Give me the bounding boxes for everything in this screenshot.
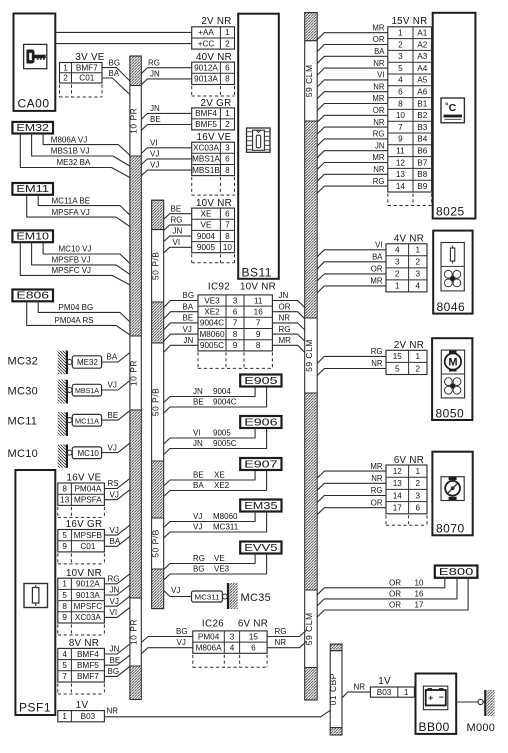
svg-text:NR: NR xyxy=(371,474,383,483)
svg-text:OR: OR xyxy=(371,265,383,274)
wire MR 8025 pin row 7 xyxy=(317,94,388,110)
svg-text:BG: BG xyxy=(193,565,205,574)
svg-text:MC311: MC311 xyxy=(195,593,220,602)
ground wall MC10 xyxy=(58,444,72,468)
connector 6V NR (8070) xyxy=(386,455,427,526)
svg-text:+AA: +AA xyxy=(198,28,214,37)
svg-text:VJ: VJ xyxy=(150,161,159,170)
wire PM04 BG xyxy=(38,301,130,322)
svg-text:MPSFA: MPSFA xyxy=(74,496,102,505)
svg-text:4: 4 xyxy=(398,76,403,85)
wire loom 10 PR xyxy=(129,56,142,700)
svg-text:8: 8 xyxy=(225,232,230,241)
svg-text:6: 6 xyxy=(225,64,230,73)
wire BA 8025 pin row 3 xyxy=(317,47,388,63)
svg-text:4: 4 xyxy=(62,650,67,659)
svg-text:BE: BE xyxy=(110,656,121,665)
connector 1V B03 (battery feed) xyxy=(370,676,414,697)
wire VI XC03A psf xyxy=(104,607,129,617)
svg-text:1: 1 xyxy=(62,580,67,589)
svg-text:B7: B7 xyxy=(417,158,427,167)
svg-text:XE2: XE2 xyxy=(214,481,230,490)
svg-text:17: 17 xyxy=(393,504,403,513)
svg-text:ME32 BA: ME32 BA xyxy=(57,158,91,167)
svg-text:8025: 8025 xyxy=(436,205,465,219)
svg-text:XC03A: XC03A xyxy=(75,613,101,622)
svg-text:CA00: CA00 xyxy=(18,97,50,111)
wire VJ M8060 xyxy=(164,512,255,528)
svg-text:BS11: BS11 xyxy=(242,266,272,280)
svg-text:E906: E906 xyxy=(244,416,278,428)
svg-text:10: 10 xyxy=(415,578,424,587)
svg-text:10: 10 xyxy=(223,243,233,252)
wire NR B03 to loom 01 CBP xyxy=(104,707,330,717)
svg-text:BMF4: BMF4 xyxy=(77,650,99,659)
wire +AA xyxy=(55,31,191,33)
svg-text:12: 12 xyxy=(396,158,406,167)
wire BE XE xyxy=(164,470,255,486)
wire BE BMF5 psf xyxy=(104,655,129,665)
svg-text:1: 1 xyxy=(404,688,409,697)
svg-text:B2: B2 xyxy=(417,111,427,120)
wire BE 9004C xyxy=(164,387,267,414)
svg-text:9012A: 9012A xyxy=(194,64,218,73)
svg-text:VJ: VJ xyxy=(110,526,119,535)
svg-text:PM04A RS: PM04A RS xyxy=(55,316,94,325)
svg-text:59 CLM: 59 CLM xyxy=(304,339,314,372)
svg-text:9005C: 9005C xyxy=(200,341,224,350)
svg-text:9012A: 9012A xyxy=(76,580,100,589)
svg-text:3: 3 xyxy=(416,491,421,500)
svg-text:10 PR: 10 PR xyxy=(129,360,139,386)
svg-text:1: 1 xyxy=(62,712,67,721)
svg-text:EVV5: EVV5 xyxy=(244,542,277,554)
svg-text:16: 16 xyxy=(415,590,424,599)
svg-text:9: 9 xyxy=(62,542,67,551)
wire BG PM04 xyxy=(141,627,193,643)
svg-text:2: 2 xyxy=(225,120,230,129)
svg-text:BG: BG xyxy=(109,58,121,67)
svg-text:2: 2 xyxy=(416,364,421,373)
svg-text:9005C: 9005C xyxy=(213,439,237,448)
svg-text:16V VE: 16V VE xyxy=(196,132,231,143)
dial icon in 8070 xyxy=(441,477,464,501)
relay icon in BS11 xyxy=(247,128,271,152)
svg-text:6: 6 xyxy=(251,644,256,653)
svg-text:VJ: VJ xyxy=(108,443,117,452)
svg-text:BG: BG xyxy=(108,667,120,676)
svg-text:C01: C01 xyxy=(80,542,95,551)
wire loom 59 CLM xyxy=(304,13,317,700)
connector 1V (PSF1) xyxy=(58,700,105,722)
wire OR 17 xyxy=(317,578,468,617)
svg-text:VI: VI xyxy=(193,429,201,438)
wire VJ MPSFA xyxy=(104,490,129,500)
svg-text:6: 6 xyxy=(233,308,238,317)
svg-text:1: 1 xyxy=(395,282,400,291)
svg-text:B6: B6 xyxy=(417,147,427,156)
svg-text:2: 2 xyxy=(395,270,400,279)
svg-text:NR: NR xyxy=(373,165,385,174)
svg-text:PM04 BG: PM04 BG xyxy=(59,303,94,312)
svg-text:PSF1: PSF1 xyxy=(19,701,51,715)
wire RG 9012A xyxy=(141,58,191,73)
earth tag MC11A xyxy=(72,414,101,426)
ground wall MC30 xyxy=(58,380,72,404)
svg-text:VJ: VJ xyxy=(183,325,192,334)
wire VI 9005 feed xyxy=(164,238,192,253)
svg-text:MC30: MC30 xyxy=(8,386,39,398)
svg-text:9: 9 xyxy=(233,341,238,350)
svg-text:8: 8 xyxy=(225,166,230,175)
svg-text:8: 8 xyxy=(233,330,238,339)
svg-text:7: 7 xyxy=(256,319,261,328)
wire BA C01 xyxy=(102,69,130,94)
wire M806A VJ xyxy=(43,134,130,156)
svg-text:5: 5 xyxy=(62,591,67,600)
svg-text:BG: BG xyxy=(183,291,195,300)
wire VI 9005 xyxy=(164,428,255,444)
svg-text:NR: NR xyxy=(371,359,383,368)
wire OR 8046 xyxy=(317,265,386,281)
wire RG VE xyxy=(164,554,255,570)
svg-text:3: 3 xyxy=(233,296,238,305)
svg-text:BA: BA xyxy=(107,353,118,362)
svg-text:15: 15 xyxy=(249,632,259,641)
svg-text:BA: BA xyxy=(109,69,120,78)
wire MPSFC VJ xyxy=(20,242,130,285)
svg-text:VJ: VJ xyxy=(150,150,159,159)
wire loom 50 P/B xyxy=(151,200,164,608)
svg-text:EM32: EM32 xyxy=(16,122,49,134)
wire BG BMF7 xyxy=(102,58,130,81)
svg-text:9: 9 xyxy=(256,330,261,339)
connector 4V NR (8046) xyxy=(386,233,427,292)
svg-text:RG: RG xyxy=(108,575,120,584)
wire BB00 to earth M000 xyxy=(456,701,478,703)
svg-text:VJ: VJ xyxy=(108,381,117,390)
svg-text:BMF7: BMF7 xyxy=(76,63,98,72)
svg-text:11: 11 xyxy=(254,296,263,305)
wire ME32 BA xyxy=(20,134,130,178)
svg-text:MBS1B VJ: MBS1B VJ xyxy=(51,147,90,156)
connector 16V VE (PSF1) xyxy=(58,473,105,518)
svg-text:10V NR: 10V NR xyxy=(240,282,276,293)
svg-text:BE: BE xyxy=(193,398,204,407)
svg-text:B9: B9 xyxy=(417,182,427,191)
wire VJ MPSFC xyxy=(104,596,129,606)
svg-text:MR: MR xyxy=(370,462,382,471)
svg-text:1: 1 xyxy=(416,467,421,476)
wire MBS1B VJ xyxy=(32,134,130,167)
svg-text:9004C: 9004C xyxy=(213,398,237,407)
svg-text:MC311: MC311 xyxy=(213,523,239,532)
svg-text:B03: B03 xyxy=(377,688,392,697)
wire VJ MC311 xyxy=(164,512,267,539)
svg-text:VJ: VJ xyxy=(110,490,119,499)
svg-text:10 PR: 10 PR xyxy=(129,619,139,645)
svg-text:5: 5 xyxy=(395,364,400,373)
svg-text:EM35: EM35 xyxy=(244,500,277,512)
wire VJ MPSFB xyxy=(104,525,129,535)
fuse icon in PSF1 xyxy=(24,584,48,608)
svg-text:RG: RG xyxy=(373,130,385,139)
wire MPSFB VJ xyxy=(32,242,130,274)
wire JN 9004 xyxy=(164,387,255,403)
wire NR 8025 pin row 9 xyxy=(317,118,388,134)
svg-text:MC11A BE: MC11A BE xyxy=(52,196,91,205)
wire BG BMF7 psf xyxy=(104,666,129,676)
wire VI 8025 pin row 5 xyxy=(317,71,388,87)
wire BA 8046 xyxy=(317,253,386,269)
wire JN 9013A xyxy=(141,70,191,85)
svg-text:E905: E905 xyxy=(244,375,278,387)
svg-text:BE: BE xyxy=(183,314,194,323)
wire RG 8050 xyxy=(317,347,386,363)
svg-text:50 P/B: 50 P/B xyxy=(151,388,161,417)
connector 10V NR (PSF1) xyxy=(58,568,105,635)
svg-text:BE: BE xyxy=(193,471,204,480)
svg-text:MR: MR xyxy=(370,277,382,286)
wire NR 8050 xyxy=(317,359,386,375)
svg-text:9004C: 9004C xyxy=(200,319,224,328)
svg-text:2V GR: 2V GR xyxy=(201,98,232,109)
svg-text:5: 5 xyxy=(62,531,67,540)
fuse box PSF1 xyxy=(15,470,55,715)
svg-text:BB00: BB00 xyxy=(419,720,450,734)
svg-text:RS: RS xyxy=(108,479,119,488)
svg-text:9005: 9005 xyxy=(213,429,231,438)
svg-text:RG: RG xyxy=(279,325,291,334)
module BS11 xyxy=(238,14,279,280)
svg-text:7: 7 xyxy=(225,221,230,230)
wire JN BMF4 psf xyxy=(104,644,129,654)
svg-text:15: 15 xyxy=(393,352,403,361)
battery icon in BB00 xyxy=(423,686,447,710)
svg-text:E907: E907 xyxy=(244,458,278,470)
svg-text:8: 8 xyxy=(225,75,230,84)
svg-text:MPSFC VJ: MPSFC VJ xyxy=(52,266,92,275)
svg-text:VJ: VJ xyxy=(193,512,202,521)
wire VJ MBS1A xyxy=(141,150,191,165)
wire JN 9005C xyxy=(164,428,267,455)
svg-text:9005: 9005 xyxy=(197,243,216,252)
wire NR B03 batt xyxy=(342,683,370,698)
wire RG 8070 xyxy=(317,486,386,502)
earth tag MBS1A xyxy=(72,384,101,396)
svg-text:9013A: 9013A xyxy=(76,591,100,600)
svg-text:JN: JN xyxy=(279,291,289,300)
wire BE 9004C ic92 xyxy=(164,314,198,330)
svg-text:13: 13 xyxy=(393,479,403,488)
wire BA XE2 xyxy=(164,470,267,497)
svg-text:2: 2 xyxy=(63,74,68,83)
svg-text:JN: JN xyxy=(110,586,120,595)
svg-text:BE: BE xyxy=(171,204,182,213)
svg-text:JN: JN xyxy=(150,104,160,113)
wire JN ic92 out xyxy=(272,291,304,307)
svg-text:NR: NR xyxy=(275,638,287,647)
svg-text:VE: VE xyxy=(201,221,212,230)
connector IC92 10V NR xyxy=(198,295,272,369)
svg-text:9013A: 9013A xyxy=(194,75,218,84)
motor+fan icon in 8050 xyxy=(441,350,464,398)
svg-text:OR: OR xyxy=(373,35,385,44)
connector 10V NR xyxy=(192,198,235,263)
wire JN 8025 pin row 11 xyxy=(317,141,388,157)
svg-text:M8060: M8060 xyxy=(199,330,224,339)
wire OR 8025 pin row 8 xyxy=(317,106,388,122)
svg-text:8: 8 xyxy=(62,602,67,611)
svg-text:A2: A2 xyxy=(417,40,427,49)
wire MR 8025 pin row 12 xyxy=(317,153,388,169)
wire VI 8046 xyxy=(317,241,386,257)
wire RG 9012A psf xyxy=(104,574,129,584)
svg-text:PM04: PM04 xyxy=(198,632,220,641)
svg-text:˚C: ˚C xyxy=(445,102,456,114)
wire RG ic92 out xyxy=(272,325,304,341)
earth strap box EM11 xyxy=(12,183,53,195)
svg-text:2: 2 xyxy=(416,258,421,267)
svg-text:MR: MR xyxy=(372,94,384,103)
svg-text:MC35: MC35 xyxy=(241,592,272,604)
svg-text:6V NR: 6V NR xyxy=(238,619,268,630)
svg-text:OR: OR xyxy=(389,590,401,599)
svg-text:BA: BA xyxy=(374,47,385,56)
svg-text:M: M xyxy=(448,357,457,369)
battery BB00 xyxy=(416,674,457,735)
svg-text:8: 8 xyxy=(398,99,403,108)
svg-text:8: 8 xyxy=(256,341,261,350)
earth strap box EM10 xyxy=(12,230,53,242)
key icon in CA00 xyxy=(24,44,47,68)
wire BA ME32 xyxy=(102,353,130,363)
svg-text:5: 5 xyxy=(398,64,403,73)
svg-text:B8: B8 xyxy=(417,170,427,179)
svg-text:6: 6 xyxy=(225,210,230,219)
svg-text:VJ: VJ xyxy=(193,523,202,532)
svg-text:2: 2 xyxy=(416,479,421,488)
svg-text:50 P/B: 50 P/B xyxy=(151,252,161,281)
svg-text:13: 13 xyxy=(60,496,70,505)
svg-text:BMF5: BMF5 xyxy=(195,120,217,129)
connector 16V VE xyxy=(192,132,235,195)
wire BA XE2 ic92 xyxy=(164,302,198,318)
svg-text:BG: BG xyxy=(176,627,188,636)
svg-text:6V NR: 6V NR xyxy=(394,455,424,466)
svg-text:6: 6 xyxy=(225,155,230,164)
svg-text:NR: NR xyxy=(279,314,291,323)
svg-text:MC10 VJ: MC10 VJ xyxy=(59,245,92,254)
wire OR ic92 out xyxy=(272,302,304,318)
wire MR ic92 out xyxy=(272,336,304,352)
svg-text:9004: 9004 xyxy=(213,387,231,396)
svg-text:VI: VI xyxy=(150,138,158,147)
svg-text:9: 9 xyxy=(398,135,403,144)
svg-text:XE: XE xyxy=(201,210,212,219)
svg-text:10V NR: 10V NR xyxy=(66,568,102,579)
svg-text:7: 7 xyxy=(233,319,238,328)
svg-text:5: 5 xyxy=(62,661,67,670)
svg-text:MBS1B: MBS1B xyxy=(192,166,220,175)
svg-text:4: 4 xyxy=(230,644,235,653)
wire MC11A BE xyxy=(38,195,130,215)
svg-text:A6: A6 xyxy=(417,88,427,97)
svg-text:MBS1A: MBS1A xyxy=(192,155,220,164)
svg-text:BMF4: BMF4 xyxy=(195,109,217,118)
svg-text:50 P/B: 50 P/B xyxy=(151,529,161,558)
svg-text:2: 2 xyxy=(225,39,230,48)
wire NR 8070 xyxy=(317,474,386,490)
svg-text:−: − xyxy=(439,692,444,702)
svg-text:EM11: EM11 xyxy=(16,183,49,195)
wire BE BMF5 xyxy=(141,115,191,130)
blower resistor 8046 xyxy=(433,231,472,314)
wire JN BMF4 xyxy=(141,104,191,119)
svg-text:59 CLM: 59 CLM xyxy=(304,64,314,97)
svg-text:MC32: MC32 xyxy=(8,356,39,368)
svg-text:VI: VI xyxy=(375,241,382,250)
svg-text:3: 3 xyxy=(225,144,230,153)
splice box E806 xyxy=(12,290,53,302)
svg-text:RG: RG xyxy=(148,58,160,67)
connector 16V GR (PSF1) xyxy=(58,519,105,564)
svg-text:M806A: M806A xyxy=(196,644,222,653)
svg-text:MPSFB VJ: MPSFB VJ xyxy=(52,256,91,265)
splice box EVV5 xyxy=(240,542,281,554)
svg-text:JN: JN xyxy=(150,70,160,79)
wire NR 8025 pin row 13 xyxy=(317,165,388,181)
wire PM04A RS xyxy=(27,301,130,335)
wire RG VE feed xyxy=(164,216,192,231)
wire JN 9004 feed xyxy=(164,227,192,242)
svg-text:VJ: VJ xyxy=(171,586,180,595)
svg-text:10: 10 xyxy=(396,111,406,120)
svg-text:BE: BE xyxy=(108,411,119,420)
svg-text:7: 7 xyxy=(62,672,67,681)
svg-text:IC92: IC92 xyxy=(208,282,230,293)
svg-text:RG: RG xyxy=(371,486,383,495)
wire BE XE feed xyxy=(164,204,192,219)
wire JN 9013A psf xyxy=(104,585,129,595)
display icon in 8025 xyxy=(441,98,464,123)
svg-text:BMF7: BMF7 xyxy=(77,672,99,681)
svg-text:E800: E800 xyxy=(439,566,474,578)
ground wall MC32 xyxy=(58,351,72,375)
svg-text:1: 1 xyxy=(225,28,230,37)
wire RG PM04 out xyxy=(267,627,307,637)
svg-text:+: + xyxy=(428,693,433,703)
svg-text:9004: 9004 xyxy=(197,232,216,241)
svg-text:8V NR: 8V NR xyxy=(69,638,99,649)
svg-text:NR: NR xyxy=(373,118,385,127)
svg-text:MC11: MC11 xyxy=(8,416,38,428)
wire NR 8025 pin row 4 xyxy=(317,59,388,75)
svg-text:1V: 1V xyxy=(76,700,89,711)
svg-text:B4: B4 xyxy=(417,135,427,144)
wire OR 16 xyxy=(317,578,457,606)
svg-text:VI: VI xyxy=(173,238,181,247)
svg-text:8070: 8070 xyxy=(436,522,465,536)
svg-text:JN: JN xyxy=(173,227,183,236)
svg-text:RG: RG xyxy=(171,216,183,225)
earth tag MC10 xyxy=(72,447,101,459)
svg-text:10V NR: 10V NR xyxy=(196,198,232,209)
wire BG VE3 evv5 xyxy=(164,554,267,581)
wire VJ MBS1B xyxy=(141,161,191,176)
wire RS PM04A xyxy=(104,479,129,489)
svg-text:JN: JN xyxy=(193,387,203,396)
